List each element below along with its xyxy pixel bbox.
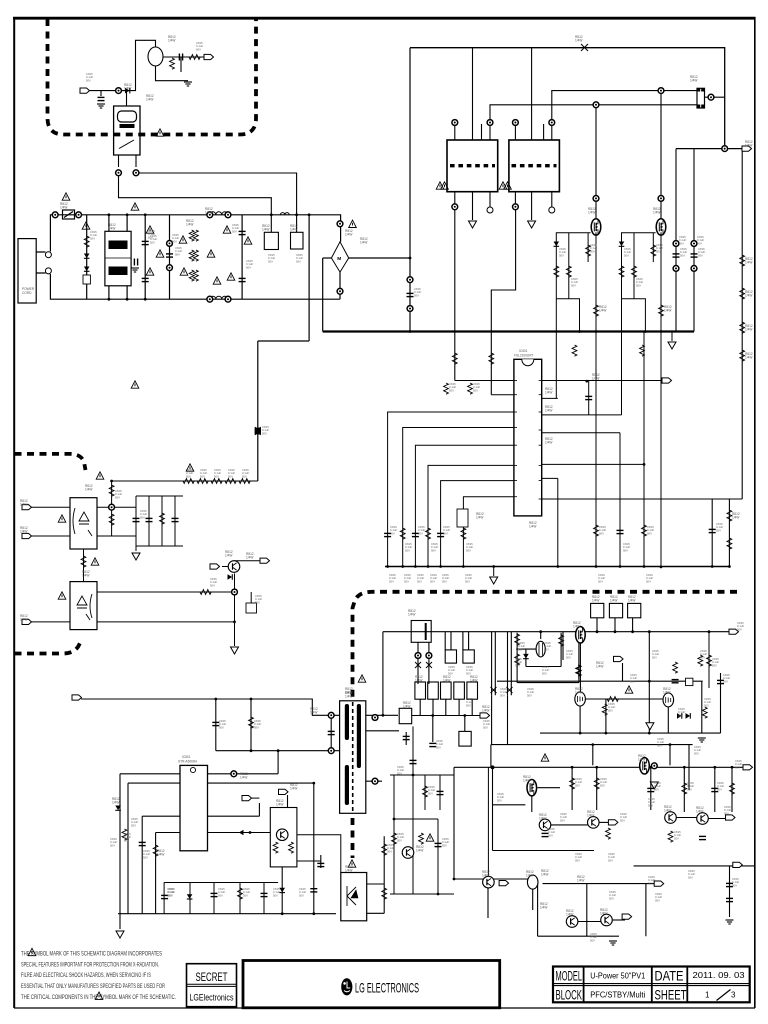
svg-text:BLOCK: BLOCK (556, 988, 583, 1003)
svg-text:SECRET: SECRET (196, 972, 228, 984)
svg-text:U-Power 50"PV1: U-Power 50"PV1 (590, 972, 645, 981)
svg-text:IC801: IC801 (182, 755, 191, 759)
svg-text:PFC/STBY/Multi: PFC/STBY/Multi (590, 991, 645, 1000)
svg-text:CORD: CORD (22, 291, 32, 295)
svg-text:SPECIAL FEATURES IMPORTANT FOR: SPECIAL FEATURES IMPORTANT FOR PROTECTIO… (21, 961, 159, 968)
svg-text:STR-A6069H: STR-A6069H (178, 760, 198, 764)
svg-text:MODEL: MODEL (556, 969, 583, 984)
svg-text:2011. 09. 03: 2011. 09. 03 (693, 971, 745, 980)
svg-text:THE SYMBOL MARK OF THIS SC: THE SYMBOL MARK OF THIS SCHEMATIC DIAGRA… (21, 950, 162, 957)
svg-text:FSL2100URT: FSL2100URT (514, 354, 533, 358)
svg-text:DATE: DATE (655, 969, 684, 984)
svg-text:LGElectronics: LGElectronics (190, 993, 234, 1003)
svg-text:LG ELECTRONICS: LG ELECTRONICS (355, 979, 419, 995)
svg-text:3: 3 (731, 991, 736, 1000)
svg-text:FILRE AND ELECTRICAL SHOCK HAZ: FILRE AND ELECTRICAL SHOCK HAZARDS, WHEN… (21, 972, 151, 979)
svg-text:ESSENTIAL THAT ONLY MANUFATURE: ESSENTIAL THAT ONLY MANUFATURES SPECIFIE… (21, 983, 165, 990)
svg-text:M: M (337, 256, 341, 262)
svg-text:IC601: IC601 (519, 349, 528, 353)
svg-text:SHEET: SHEET (655, 988, 687, 1003)
svg-text:1: 1 (705, 991, 710, 1000)
